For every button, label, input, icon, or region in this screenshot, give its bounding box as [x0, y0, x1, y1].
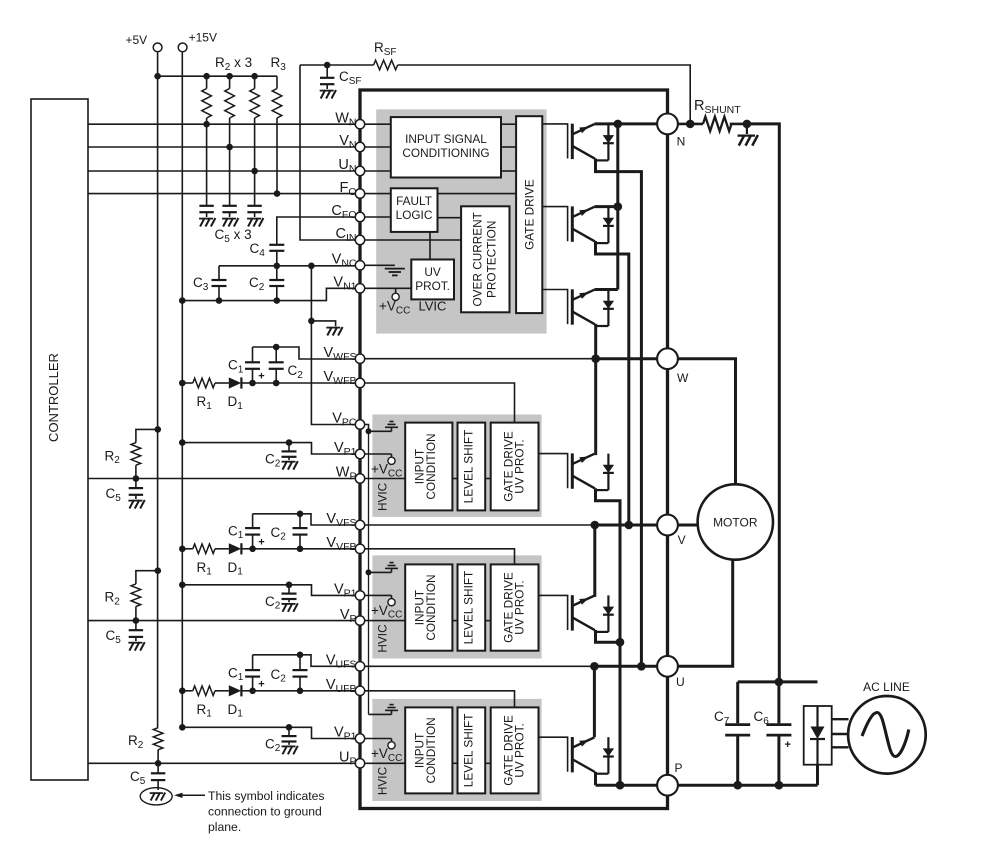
resistor RSF [374, 40, 398, 70]
pin CFO [331, 203, 364, 222]
capacitor C5 (V input) [106, 621, 145, 651]
svg-text:HVIC: HVIC [375, 624, 389, 653]
wire VN1 to +15V rail [179, 288, 355, 304]
capacitor C2 (W bootstrap) [269, 344, 304, 387]
P rail to bridge [678, 784, 818, 787]
bridge AC stubs [832, 719, 849, 747]
wire bootstrap top (W) [253, 347, 356, 359]
wire pin FO to fault logic [360, 193, 391, 195]
resistor RSHUNT [678, 98, 751, 131]
wire V to motor [678, 524, 698, 527]
+Vcc terminal (HVIC V) [360, 595, 402, 620]
wire VVFB into gate drive box [360, 549, 515, 565]
gate drive box (LVIC) [516, 116, 542, 313]
HVIC shaded block (W phase) [372, 415, 541, 517]
wire UP from controller [88, 762, 355, 764]
svg-text:CONDITION: CONDITION [424, 717, 438, 783]
svg-text:+: + [258, 678, 264, 690]
level shift box (V) [458, 564, 486, 650]
collector route Q4 to P bus [596, 488, 621, 785]
module outline (IPM package border) [360, 90, 668, 809]
emitter route Q6 to U node [593, 666, 596, 737]
pin VP1 [334, 440, 365, 458]
IGBT Q1 (low-side, top) [542, 124, 614, 161]
capacitor C2 (VN1 filter) [249, 266, 284, 301]
VPC pin wire and junction (chain to HVIC grounds) [360, 425, 372, 715]
+5V rail [154, 52, 161, 728]
ground (HVIC U) [369, 705, 399, 715]
N emitter bus [614, 120, 623, 290]
wire ISC to gate drive stubs [501, 124, 516, 171]
svg-text:UV PROT.: UV PROT. [512, 439, 526, 493]
wire FO from controller [88, 193, 355, 195]
pin VWFS [324, 345, 365, 364]
wire CIN to OCP [360, 239, 461, 241]
svg-text:UV PROT.: UV PROT. [512, 723, 526, 777]
pin VNC [332, 252, 365, 270]
collector route Q3 to W node [594, 324, 597, 359]
fault logic box [391, 188, 438, 232]
svg-text:V: V [678, 533, 686, 547]
V phase rail [591, 521, 668, 530]
svg-text:PROT.: PROT. [415, 279, 450, 293]
level shift box (U) [458, 707, 486, 793]
collector route Q2 to V node [596, 241, 629, 525]
svg-text:+: + [258, 371, 264, 383]
svg-text:plane.: plane. [208, 820, 241, 834]
IGBT Q5 (high-side V) [539, 595, 615, 632]
pin CIN [336, 226, 365, 245]
ground note text [208, 789, 325, 834]
svg-text:LEVEL SHIFT: LEVEL SHIFT [461, 714, 475, 788]
wire WP from controller [88, 478, 355, 480]
svg-text:UV: UV [424, 265, 441, 279]
wire VP input to input-condition box [360, 620, 405, 622]
wire VWFB into gate drive box [360, 383, 515, 423]
label R2 x 3 [215, 55, 252, 73]
input condition box (W) [405, 423, 452, 511]
svg-text:GATE DRIVE: GATE DRIVE [522, 179, 536, 250]
ground (HVIC W) [369, 422, 399, 432]
svg-text:AC LINE: AC LINE [863, 680, 910, 694]
pin WN [335, 110, 364, 128]
pin VUFS [326, 653, 365, 672]
AC line source [848, 680, 926, 774]
capacitor C2 (VP1 decoupling W) [265, 443, 298, 470]
capacitor C5 (U input) [130, 763, 165, 790]
diode D1 (V bootstrap) [228, 543, 253, 577]
resistor R2 (U input) [128, 728, 163, 767]
capacitor C1 (V bootstrap) [228, 514, 265, 552]
resistor R3 [272, 76, 282, 197]
ground (HVIC V) [369, 563, 399, 573]
resistor R2 b [225, 76, 235, 150]
pin UP [339, 750, 365, 769]
pin VVFS [326, 511, 364, 530]
svg-text:HVIC: HVIC [375, 766, 389, 795]
svg-text:HVIC: HVIC [375, 482, 389, 511]
wire VN1 to uv prot [360, 287, 411, 289]
+5V supply terminal [126, 33, 163, 52]
capacitor C4 [250, 217, 356, 266]
motor [698, 484, 773, 559]
ground (VNC internal) [360, 265, 405, 275]
svg-text:OVER CURRENT: OVER CURRENT [471, 212, 485, 306]
pin VP1 [334, 725, 365, 744]
capacitor C2 (VP1 decoupling U) [265, 727, 298, 754]
capacitor C3 [193, 266, 227, 301]
input condition box (V) [405, 564, 452, 650]
wire VUFB (U) [253, 690, 356, 692]
V terminal [657, 515, 686, 547]
wire UN from controller [88, 170, 355, 172]
svg-text:W: W [677, 371, 689, 385]
svg-text:LEVEL SHIFT: LEVEL SHIFT [461, 571, 475, 645]
wire pins WN VN UN to ISC box [360, 124, 391, 171]
emitter rail Q3 [594, 288, 617, 291]
input condition box (U) [405, 707, 452, 793]
wire W to motor [678, 359, 736, 485]
U phase rail [590, 662, 667, 671]
pin VN [339, 133, 364, 152]
svg-text:CONTROLLER: CONTROLLER [46, 353, 61, 442]
svg-text:This symbol indicates: This symbol indicates [208, 789, 325, 803]
IGBT Q6 (high-side U) [539, 737, 615, 774]
wire VP1 feed (U) [179, 724, 355, 739]
svg-text:MOTOR: MOTOR [713, 516, 758, 530]
label R3 [271, 55, 287, 73]
wire WP input to input-condition box [360, 478, 405, 480]
pin VPC [332, 411, 364, 429]
HVIC label (U) [375, 766, 389, 795]
IGBT Q3 (low-side, bottom) [542, 289, 614, 326]
box connector stubs (W) [452, 478, 490, 480]
svg-text:LOGIC: LOGIC [396, 208, 433, 222]
+Vcc terminal (HVIC U) [360, 739, 402, 764]
HVIC label (W) [375, 482, 389, 511]
wire VP from controller [88, 620, 355, 622]
wire pin CFO to fault logic [360, 216, 391, 218]
svg-text:UV PROT.: UV PROT. [512, 580, 526, 634]
ground note arrow [174, 793, 205, 798]
wire VUFS through to phase node [360, 665, 595, 667]
controller box [31, 99, 88, 780]
over current protection box [461, 206, 509, 312]
capacitor C5 (W input) [106, 479, 145, 509]
svg-text:PROTECTION: PROTECTION [484, 221, 498, 298]
resistor R1 (U bootstrap) [179, 686, 229, 720]
resistor R1 (W bootstrap) [179, 378, 229, 412]
N terminal [657, 114, 685, 149]
wire VVFS through to phase node [360, 524, 595, 526]
gate drive uv prot box (V) [491, 564, 539, 650]
ground tap (logic ground plane) [308, 318, 343, 336]
pin FO [339, 180, 364, 199]
capacitor C1 (W bootstrap) [228, 347, 265, 386]
wire UP input to input-condition box [360, 762, 405, 764]
U terminal [657, 656, 685, 689]
LVIC shaded block [376, 109, 546, 333]
svg-text:FAULT: FAULT [396, 194, 432, 208]
wire RSF to N sense [398, 65, 691, 124]
W terminal [657, 348, 689, 385]
P terminal [657, 761, 682, 796]
wire VNC node [219, 263, 355, 270]
pin VP [340, 607, 365, 626]
wire VP1 feed (W) [179, 439, 355, 454]
svg-text:INPUT SIGNAL: INPUT SIGNAL [405, 132, 487, 146]
svg-text:connection to ground: connection to ground [208, 804, 322, 818]
gate drive uv prot box (U) [491, 707, 539, 793]
wire fault logic to uv prot [429, 232, 431, 260]
pin VVFB [326, 535, 364, 554]
resistor R2 a [202, 76, 212, 127]
+15V rail [181, 52, 183, 727]
wire CSF node [300, 62, 374, 69]
capacitor C2 (V bootstrap) [271, 511, 308, 553]
wire N bus to bridge [747, 124, 779, 682]
wire bootstrap top (U) [253, 655, 356, 667]
HVIC shaded block (U phase) [372, 699, 541, 801]
input signal conditioning box [391, 117, 501, 177]
ground plane symbol (circled) [140, 788, 172, 805]
negative DC rail [738, 678, 818, 687]
emitter rail Q2 [594, 205, 617, 208]
IGBT Q2 (low-side, middle) [542, 206, 614, 243]
wire VWFS through to phase node [360, 358, 595, 360]
resistor R1 (V bootstrap) [179, 544, 229, 578]
collector route Q5 to P bus [596, 630, 625, 647]
level shift box (W) [458, 423, 486, 511]
svg-text:LVIC: LVIC [419, 299, 447, 314]
wire fault logic to OCP [438, 217, 462, 219]
svg-text:CONDITIONING: CONDITIONING [402, 146, 489, 160]
+15V supply terminal [178, 31, 217, 52]
emitter route Q4 to W node [594, 359, 595, 454]
+Vcc terminal (LVIC) [379, 288, 446, 316]
emitter rail Q1 to N terminal [594, 122, 667, 125]
capacitor C5 b [222, 147, 238, 227]
wire bootstrap top (V) [253, 514, 356, 525]
ground (shunt) [738, 124, 758, 146]
W phase rail [591, 354, 667, 363]
wire VN from controller [88, 146, 355, 148]
collector route Q1 to U node [596, 158, 642, 666]
pin VN1 [333, 275, 364, 293]
HVIC label (V) [375, 624, 389, 653]
diode D1 (U bootstrap) [228, 685, 253, 719]
HVIC shaded block (V phase) [372, 555, 541, 658]
wire VUFB into gate drive box [360, 691, 515, 708]
pin VWFB [324, 369, 365, 387]
wire VNC chain down to VPC [311, 266, 355, 425]
wire WN from controller [88, 123, 355, 125]
gate drive uv prot box (W) [491, 423, 539, 511]
capacitor C5 c [247, 171, 263, 227]
svg-text:+5V: +5V [126, 33, 148, 47]
collector route Q6 to P rail [594, 772, 597, 785]
svg-text:+15V: +15V [189, 31, 217, 45]
resistor R2 (V input) [105, 567, 162, 623]
IGBT Q4 (high-side W) [539, 453, 615, 490]
bridge rectifier [804, 706, 832, 785]
pull-up rail [158, 73, 277, 80]
svg-text:N: N [677, 135, 686, 149]
resistor R2 (W input) [105, 426, 162, 482]
capacitor C2 (U bootstrap) [271, 652, 308, 695]
uv prot box (LVIC) [411, 260, 454, 300]
wire fault logic to gate drive [438, 193, 517, 195]
svg-text:LEVEL SHIFT: LEVEL SHIFT [461, 430, 475, 504]
wire CIN filter [300, 65, 355, 240]
svg-text:U: U [676, 675, 685, 689]
wire U to motor [678, 560, 733, 667]
svg-text:+: + [785, 739, 791, 751]
capacitor CSF [320, 65, 362, 99]
svg-text:CONDITION: CONDITION [424, 574, 438, 640]
svg-text:+: + [258, 536, 264, 548]
label C5 x 3 [215, 227, 252, 245]
pin WP [336, 465, 365, 483]
emitter route Q5 to V node [593, 525, 596, 595]
pin VP1 [334, 582, 365, 601]
capacitor C5 a [199, 124, 215, 226]
wire VWFB (W) [253, 382, 356, 384]
diode D1 (W bootstrap) [228, 377, 253, 411]
capacitor C2 (VP1 decoupling V) [265, 585, 298, 612]
resistor R2 c [250, 76, 260, 174]
capacitor C7 [714, 682, 750, 790]
P rail [596, 781, 668, 790]
capacitor C6 [754, 682, 792, 790]
pin VUFB [326, 677, 365, 696]
capacitor C1 (U bootstrap) [228, 655, 265, 694]
svg-text:CONDITION: CONDITION [424, 433, 438, 499]
wire VVFB (V) [253, 548, 356, 550]
wire VP1 feed (V) [179, 582, 355, 596]
pin UN [338, 157, 364, 176]
box connector stubs (U) [452, 762, 490, 764]
+Vcc terminal (HVIC W) [360, 454, 402, 479]
svg-text:P: P [675, 761, 683, 775]
box connector stubs (V) [452, 620, 490, 622]
